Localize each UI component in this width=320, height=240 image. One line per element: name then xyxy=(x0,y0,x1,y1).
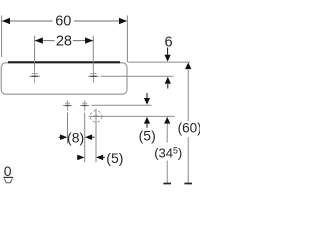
svg-text:0: 0 xyxy=(4,163,12,179)
svg-text:6: 6 xyxy=(165,34,173,50)
reference line tap-hole level (right) xyxy=(101,75,174,77)
dim (34.5): floor tick xyxy=(163,183,171,185)
dim (60): dimension line xyxy=(187,69,189,121)
drain hole vertical centreline xyxy=(95,109,97,163)
tap hole mark left (front view) xyxy=(29,70,40,83)
dim 60: extension line right xyxy=(126,16,128,63)
reference line rim level (right) xyxy=(128,61,190,63)
plan view tap hole mark right xyxy=(80,101,89,111)
dim 28: left arrowhead xyxy=(35,37,43,43)
svg-text:(5): (5) xyxy=(139,128,156,144)
dim 28: extension line left xyxy=(34,36,36,71)
extension line below right plan hole xyxy=(84,113,86,163)
dim 60: extension line left xyxy=(1,16,3,58)
floor datum underline xyxy=(3,176,13,178)
reference line drain row (right, plan) xyxy=(89,115,175,117)
dim (60): floor tick xyxy=(184,183,192,185)
dim (8): right arrow xyxy=(85,134,92,140)
dim (5) right side: lower arrow (up) xyxy=(144,117,150,124)
dim 28: dimension line xyxy=(35,40,55,42)
svg-text:(5): (5) xyxy=(106,150,123,166)
dim 60: dimension line xyxy=(2,20,53,22)
dim 6: upper arrow (down) xyxy=(167,48,169,56)
basin front view body xyxy=(1,63,127,94)
tap hole mark right (front view) xyxy=(88,70,99,83)
tap hole mark left centre tick xyxy=(31,75,38,77)
dim (34.5): arrow up at top xyxy=(164,117,170,124)
tap hole mark right centre tick xyxy=(90,75,97,77)
basin rim thick top edge xyxy=(8,61,120,63)
dim 60: left arrowhead xyxy=(2,18,10,24)
dim 6: lower arrow (up) xyxy=(165,77,171,84)
drain hole dashed circle xyxy=(90,111,102,123)
dim (60): arrow up at top xyxy=(185,62,191,69)
plan tap hole left centre tick xyxy=(65,105,70,107)
floor datum triangle xyxy=(4,179,12,183)
svg-text:(345): (345) xyxy=(154,145,182,160)
dim (5) bottom: right arrow xyxy=(96,155,103,161)
reference line tap-hole row (right, plan) xyxy=(92,104,152,106)
dim (5) bottom: left arrow xyxy=(77,156,79,158)
dim 28: right arrowhead xyxy=(85,37,93,43)
extension line below left plan hole xyxy=(67,113,69,144)
svg-text:60: 60 xyxy=(55,14,71,30)
svg-text:28: 28 xyxy=(56,33,72,49)
dim 60: right arrowhead xyxy=(119,18,127,24)
plan view tap hole mark left xyxy=(63,101,72,111)
dim (34.5): dimension line xyxy=(166,124,168,143)
dim (5) right side: upper arrow (down) xyxy=(146,93,148,99)
svg-text:(60): (60) xyxy=(178,120,200,135)
plan tap hole right centre tick xyxy=(82,105,87,107)
dim (8): left arrow xyxy=(59,136,61,138)
svg-text:(8): (8) xyxy=(67,129,84,145)
dim 28: extension line right xyxy=(92,36,94,71)
